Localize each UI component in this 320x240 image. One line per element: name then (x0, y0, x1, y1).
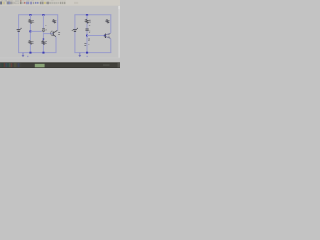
resistor R6 emitter (42, 41, 45, 45)
wire: Q2 base wire (43, 33, 52, 35)
wire: emitter down (55, 37, 57, 53)
label R1 value (32, 20, 34, 22)
wire: emitter down (110, 39, 112, 53)
wire: branch mid (86, 23, 88, 28)
node dot base wire junction (86, 35, 88, 37)
wire: branch upper (86, 15, 88, 19)
ground arrow (79, 53, 81, 56)
node dot top rail / C1 branch (42, 14, 44, 16)
label net (84, 44, 86, 46)
canvas (0, 6, 120, 58)
label C1 (45, 25, 46, 27)
wire: right rail through resistor (57, 14, 59, 30)
battery V2 (73, 29, 77, 31)
wire: branch below R2 (29, 44, 31, 53)
node label blip (87, 56, 88, 57)
resistor R1 (29, 19, 32, 23)
node label blip (27, 56, 28, 57)
wire: left rail upper (18, 15, 20, 30)
label R2 value (32, 42, 34, 44)
node dot bottom rail C branch (42, 52, 44, 54)
battery V1 (17, 29, 21, 31)
wire: branch below C1 (42, 32, 44, 53)
green taskbar button (35, 64, 45, 68)
label Q2 (58, 33, 60, 35)
transistor Q3 circle (103, 34, 106, 37)
transistor Q2 (52, 32, 54, 36)
status bar (0, 58, 120, 63)
label V2 (72, 29, 73, 31)
label C3 (89, 25, 90, 27)
ground arrow (22, 53, 24, 56)
wire: left rail upper (74, 15, 76, 30)
wire: branch lower (86, 31, 88, 53)
wire: bottom rail (74, 52, 111, 54)
resistor R4 (86, 19, 89, 23)
wire: base node wire (30, 30, 41, 32)
wire: branch R1 upper (29, 15, 31, 20)
wire: base wire Q3 (87, 35, 104, 37)
wire: top rail (74, 14, 111, 16)
node dot top rail branch (86, 14, 88, 16)
wire: top rail (18, 14, 58, 16)
label R6 value (45, 42, 46, 44)
wire: right rail to collector (110, 15, 112, 34)
toolbar strip (0, 0, 120, 6)
wire: branch C1 upper (42, 15, 44, 29)
label R4 value (89, 20, 91, 22)
wire: left rail lower (74, 32, 76, 53)
wire: left rail lower (18, 32, 20, 53)
node dot base divider (29, 30, 31, 32)
label Q3 (108, 35, 109, 37)
right clock area (118, 63, 121, 68)
right scrollbar column (118, 6, 120, 58)
resistor R5 (106, 19, 109, 23)
label C3 value (89, 31, 90, 32)
capacitor C3 plates (86, 29, 89, 30)
canvas background (0, 0, 120, 68)
resistor R3 (53, 19, 56, 23)
taskbar (0, 62, 120, 68)
node dot bottom rail (86, 52, 88, 54)
capacitor C1 polarized (42, 28, 45, 30)
wire: branch below R1 (29, 24, 31, 41)
label Q3 net right (88, 39, 90, 40)
wire: bottom rail (18, 52, 56, 54)
resistor R2 (29, 40, 32, 44)
node dot bottom rail R branch (29, 52, 31, 54)
node dot emitter junction (43, 38, 45, 40)
node dot top rail / R1 branch (29, 14, 31, 16)
